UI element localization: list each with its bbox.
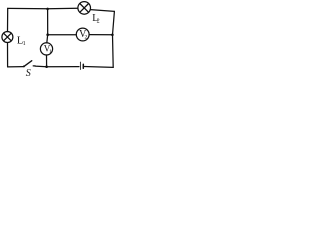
svg-text:2: 2 bbox=[85, 35, 88, 41]
switch pivot dot bbox=[23, 65, 25, 67]
node right junction bbox=[111, 34, 114, 37]
wire junction to V1 bbox=[46, 35, 49, 43]
switch S blade bbox=[24, 61, 32, 66]
wire battery to V1 bottom junction bbox=[47, 66, 79, 68]
battery cell bbox=[80, 62, 83, 69]
wire switch pivot to bottom-left corner bbox=[8, 66, 24, 68]
lamp L1 bbox=[2, 32, 13, 43]
wire L2 to top-right corner bbox=[91, 10, 115, 12]
wire left side (top-left corner down to L1) bbox=[7, 8, 9, 31]
svg-text:2: 2 bbox=[97, 19, 100, 25]
node top junction bbox=[46, 8, 49, 11]
voltmeter V1 bbox=[40, 43, 52, 55]
svg-text:1: 1 bbox=[23, 41, 26, 47]
wire V2 to right side bbox=[89, 34, 112, 36]
wire junction to switch bbox=[33, 65, 46, 68]
svg-text:S: S bbox=[26, 68, 31, 78]
wire left bottom (corner up to L1) bbox=[7, 43, 9, 67]
svg-text:1: 1 bbox=[49, 49, 52, 55]
wire bottom right (corner to battery) bbox=[84, 66, 113, 69]
node middle junction bbox=[46, 33, 49, 36]
lamp L2 bbox=[78, 2, 91, 15]
wire middle horizontal (junction to V2) bbox=[48, 34, 77, 36]
node bottom junction bbox=[45, 65, 48, 68]
wire right side bbox=[113, 11, 115, 67]
wire V1 bottom lead bbox=[46, 55, 48, 67]
wire middle vertical (top junction down) bbox=[47, 9, 49, 35]
voltmeter V2 bbox=[76, 28, 89, 41]
wire top (top-left corner to L2) bbox=[8, 7, 78, 10]
